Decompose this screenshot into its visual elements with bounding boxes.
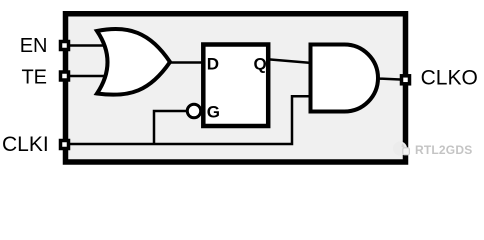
svg-text:EN: EN [20,35,48,57]
svg-text:CLKI: CLKI [2,133,49,156]
svg-text:G: G [207,103,220,122]
svg-text:CLKO: CLKO [421,67,478,90]
svg-text:D: D [207,55,219,74]
svg-text:Q: Q [254,55,267,74]
svg-text:TE: TE [21,67,47,89]
svg-text:RTL2GDS: RTL2GDS [415,143,472,157]
